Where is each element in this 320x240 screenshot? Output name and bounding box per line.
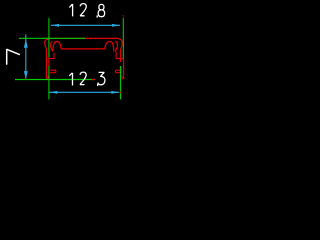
green ext line left lower part — [48, 66, 50, 99]
left upper bar — [49, 58, 54, 60]
dimension text 7 (stroke glyph) — [7, 49, 20, 65]
right foot outer vertical — [123, 59, 125, 79]
right hook inner arc — [115, 41, 117, 51]
arrow 12.8 left — [51, 24, 59, 27]
right foot U inner leg — [121, 76, 123, 79]
right lower slot bars — [115, 70, 121, 73]
right outer corner curl — [119, 39, 123, 51]
arrow 7 up — [24, 39, 28, 48]
profile top edge — [47, 37, 119, 39]
left outer corner curl — [45, 39, 49, 50]
green ext line left (shared 12.8/12.3) upper part — [48, 18, 50, 58]
red defpoint dot at 7-dim bottom (over arrow) — [25, 78, 27, 80]
digit 8 — [98, 4, 105, 16]
dimension text 12.8 (stroke glyphs) — [69, 4, 104, 17]
cyan dim line 12.3 — [49, 91, 119, 93]
right wall vertical to bar — [119, 50, 121, 62]
left foot U bottom — [46, 78, 48, 80]
inner floor line — [61, 48, 105, 50]
red dash on bottom green line — [92, 79, 95, 81]
left lower slot bars — [50, 70, 56, 73]
arrow 7 down — [24, 71, 28, 79]
arrowheads cyan — [24, 24, 120, 94]
red defpoint tick top right — [122, 15, 124, 16]
left inner foot edge over ext line — [48, 57, 50, 66]
right step to outer foot — [120, 58, 123, 60]
red defpoint dot at left foot bottom — [48, 77, 49, 79]
right arch — [105, 42, 114, 52]
cyan dim line 7 (vertical) — [25, 35, 27, 80]
green ext line bottom-right (12.3) — [120, 66, 122, 99]
arrow 12.8 right — [112, 24, 120, 27]
period — [97, 15, 98, 17]
left foot U inner leg — [47, 76, 49, 79]
right hook drop vertical — [115, 52, 117, 59]
green horizontal ext top (7 dim) — [19, 37, 85, 39]
digit 3 — [98, 72, 105, 84]
left hook inner arc — [51, 41, 53, 51]
left wall outer vertical — [45, 50, 47, 78]
digit 2 — [80, 72, 86, 85]
arrow 12.3 left — [49, 91, 57, 94]
left arch — [53, 42, 61, 52]
cyan dim line 12.8 — [51, 24, 120, 26]
digit 1 — [69, 73, 72, 86]
dimension text 12.3 (stroke glyphs) — [69, 72, 105, 85]
right upper bar — [116, 58, 120, 60]
green horizontal ext bottom (7 dim) — [15, 79, 95, 81]
green ext line top-right (12.8) — [122, 18, 124, 59]
digit 2 — [80, 4, 86, 16]
right foot U bottom — [122, 78, 124, 80]
period — [97, 84, 98, 86]
digit 1 — [69, 4, 72, 17]
background — [0, 0, 149, 128]
left hook drop vertical — [53, 53, 55, 59]
arrow 12.3 right — [111, 91, 119, 94]
red defpoint dot bottom right (over lines) — [120, 91, 121, 93]
